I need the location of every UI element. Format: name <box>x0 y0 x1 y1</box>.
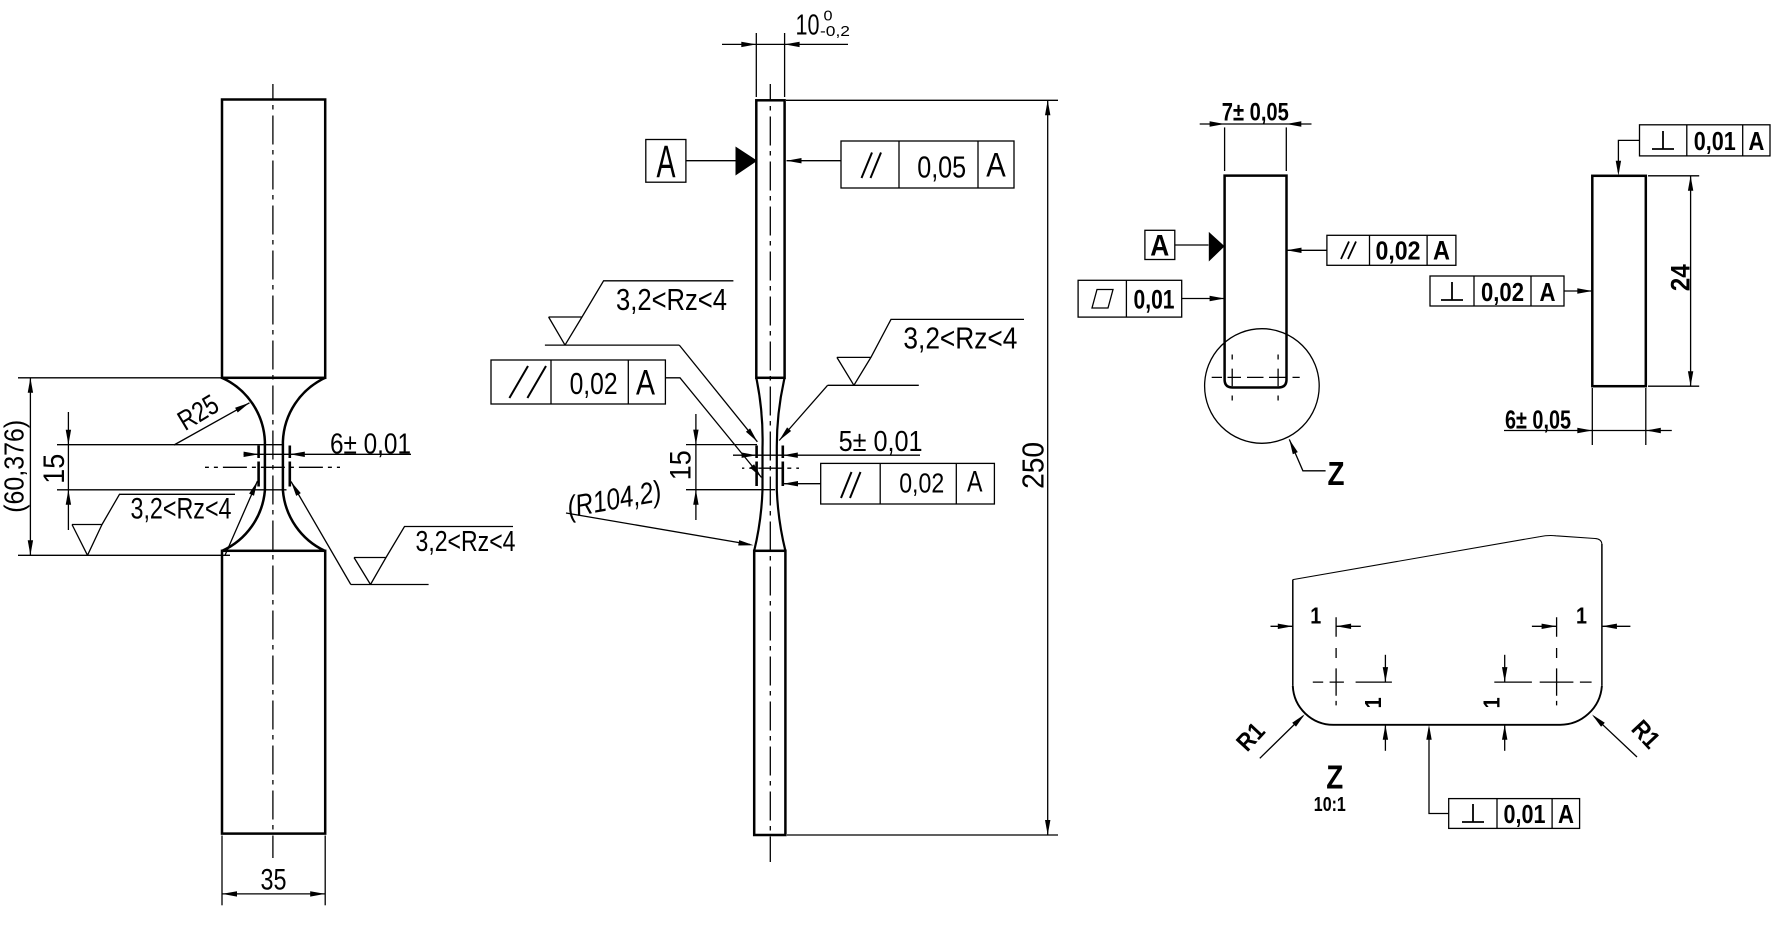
left view horizontal neck centerline <box>205 466 340 468</box>
FCF // 0,02 A (middle view right) with leader <box>783 463 994 504</box>
(R104,2) radius callout <box>566 513 750 545</box>
dimension 7±0,05 <box>1200 124 1312 171</box>
middle view horizontal neck centerline <box>742 467 799 469</box>
surface roughness 3,2<Rz<4 (left side of left view) <box>72 481 258 555</box>
R1 callout right <box>1594 716 1637 757</box>
dimension 6±0,01 (left view gauge width) <box>259 446 290 487</box>
svg-text:0,02: 0,02 <box>899 468 944 499</box>
svg-text:A: A <box>1748 126 1764 156</box>
left view vertical centerline <box>272 84 274 858</box>
FCF ⊥ 0,01 A (detail Z) with leader <box>1429 729 1580 829</box>
svg-text:7± 0,05: 7± 0,05 <box>1222 99 1289 127</box>
dashed corner centers inside circle <box>1212 355 1300 401</box>
dimension 15 (middle view) <box>686 414 775 520</box>
Z detail label leader <box>1289 439 1325 470</box>
svg-text:15: 15 <box>664 450 697 480</box>
middle view neck profile (R104,2 tapers) <box>754 378 785 551</box>
svg-text:1: 1 <box>1310 603 1321 629</box>
small view 1 outline <box>1225 176 1287 388</box>
svg-text:15: 15 <box>38 454 71 484</box>
svg-text:3,2<Rz<4: 3,2<Rz<4 <box>416 526 516 558</box>
dimension 250 (right of middle view) <box>786 100 1058 835</box>
svg-text:A: A <box>1558 799 1574 829</box>
R25 radius callout <box>174 403 250 445</box>
svg-text:5± 0,01: 5± 0,01 <box>839 426 923 458</box>
svg-text:10: 10 <box>796 10 820 42</box>
FCF // 0,05 A (middle view top) <box>787 141 1015 188</box>
svg-text:A: A <box>636 364 656 403</box>
svg-text:0: 0 <box>824 8 833 25</box>
small view 2 outline <box>1592 176 1646 386</box>
FCF // 0,02 A (small view 1) <box>1287 235 1456 265</box>
FCF flatness 0,01 (small view 1) <box>1078 280 1225 317</box>
dimension 24 <box>1648 176 1699 386</box>
datum A flag (middle view) <box>646 140 736 183</box>
svg-text:3,2<Rz<4: 3,2<Rz<4 <box>616 282 727 317</box>
detail Z corner center marks <box>1313 617 1592 705</box>
detail circle Z <box>1205 329 1320 444</box>
svg-text:0,01: 0,01 <box>1134 285 1175 315</box>
svg-text:A: A <box>967 466 983 499</box>
detail Z outline <box>1293 536 1602 725</box>
svg-text:3,2<Rz<4: 3,2<Rz<4 <box>903 321 1017 356</box>
FCF ⊥ 0,02 A (small view 2) with leader <box>1430 276 1592 306</box>
middle view vertical centerline <box>769 84 771 862</box>
dimension 35 (bottom) <box>222 836 325 906</box>
left view neck profile (R25 fillets + gauge section) <box>222 378 325 551</box>
svg-text:Z: Z <box>1326 759 1343 796</box>
svg-text:1: 1 <box>1576 603 1587 629</box>
svg-text:10:1: 10:1 <box>1314 794 1346 816</box>
dimension 10 0/-0,2 (top) <box>722 33 848 97</box>
svg-text:0,01: 0,01 <box>1694 126 1736 156</box>
middle view upper strip <box>756 100 784 378</box>
left view bottom grip rectangle <box>222 551 325 834</box>
FCF ⊥ 0,01 A (top right) with leader <box>1618 125 1770 172</box>
svg-text:6± 0,01: 6± 0,01 <box>330 429 411 461</box>
svg-text:0,05: 0,05 <box>917 150 966 185</box>
svg-text:0,01: 0,01 <box>1504 799 1546 829</box>
svg-text:1: 1 <box>1479 697 1505 708</box>
svg-text:250: 250 <box>1016 442 1051 489</box>
svg-text:6± 0,05: 6± 0,05 <box>1505 405 1571 435</box>
dimension 1 (right vertical, detail Z) <box>1504 655 1506 751</box>
datum A flag (small view 1) <box>1145 230 1209 259</box>
svg-text:0,02: 0,02 <box>1376 236 1421 266</box>
svg-text:A: A <box>1150 230 1169 263</box>
svg-text:0,02: 0,02 <box>570 366 618 401</box>
middle view lower strip <box>754 551 785 835</box>
surface roughness 3,2<Rz<4 (middle view right) <box>779 319 1024 440</box>
svg-text:A: A <box>1433 236 1450 266</box>
dimension 15 (left view) <box>57 412 287 530</box>
surface roughness 3,2<Rz<4 (middle view left) <box>545 281 758 442</box>
svg-text:-0,2: -0,2 <box>820 23 850 40</box>
svg-text:1: 1 <box>1360 697 1386 708</box>
dimension 6±0,05 <box>1504 388 1672 445</box>
svg-text:Z: Z <box>1328 455 1345 492</box>
surface roughness 3,2<Rz<4 (right side of left view) <box>291 482 513 585</box>
svg-text:24: 24 <box>1665 264 1695 291</box>
dimension 1 (top-right horizontal, detail Z) <box>1532 625 1631 627</box>
dimension 1 (left vertical, detail Z) <box>1384 655 1386 751</box>
svg-text:3,2<Rz<4: 3,2<Rz<4 <box>131 493 232 526</box>
svg-text:0,02: 0,02 <box>1481 277 1524 307</box>
dimension 5±0,01 (middle view gauge) <box>757 446 783 487</box>
left view top grip rectangle <box>222 100 325 378</box>
R1 callout left <box>1260 716 1303 758</box>
svg-text:A: A <box>1540 277 1556 307</box>
svg-text:(60,376): (60,376) <box>0 420 30 513</box>
svg-text:A: A <box>657 136 676 187</box>
dimension (60,376) (far left) <box>18 378 230 556</box>
svg-text:A: A <box>986 147 1006 185</box>
dimension 1 (top-left horizontal, detail Z) <box>1271 625 1361 627</box>
FCF // 0,02 A (middle view upper-left) with leader <box>491 360 762 478</box>
svg-text:35: 35 <box>261 864 287 897</box>
